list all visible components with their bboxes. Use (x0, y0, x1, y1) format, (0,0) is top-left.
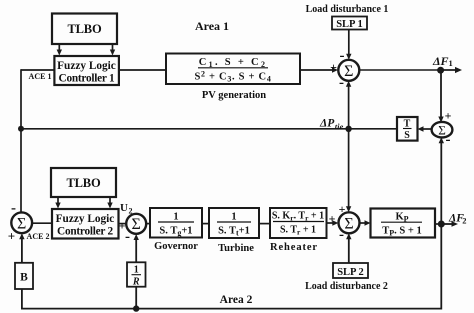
block Fuzzy Logic Controller 2 (52, 209, 119, 239)
svg-text:2: 2 (462, 216, 466, 226)
svg-text:PV generation: PV generation (202, 90, 266, 101)
svg-text:Σ: Σ (344, 63, 353, 80)
svg-text:S. Tt+1: S. Tt+1 (218, 226, 250, 238)
svg-text:Load disturbance 2: Load disturbance 2 (305, 281, 388, 292)
svg-text:Controller 2: Controller 2 (57, 226, 113, 238)
node dot delta F1 (437, 67, 444, 74)
svg-text:T: T (404, 119, 411, 130)
block SLP 2 (333, 263, 368, 278)
svg-text:+: + (445, 109, 452, 123)
svg-text:ACE 2: ACE 2 (27, 232, 50, 241)
wire B up into ACE2 with arrow (19, 233, 24, 262)
wire FLC2 to summing U2 (119, 223, 127, 225)
svg-text:Σ: Σ (344, 215, 353, 232)
svg-text:+: + (329, 211, 336, 225)
node dot bottom line at 1/R (133, 305, 139, 311)
block PV generation transfer function (166, 54, 300, 85)
svg-text:B: B (20, 272, 28, 284)
summing junction 2 (tie) (432, 122, 453, 138)
wire TLBO1 to FLC1 arrow left (57, 44, 62, 56)
block T/S (397, 117, 418, 141)
block Fuzzy Logic Controller 1 (54, 56, 119, 85)
block Kp power system (371, 209, 436, 238)
svg-text:Fuzzy Logic: Fuzzy Logic (57, 60, 116, 72)
node junction dot tie (348.6,128.8) (345, 126, 351, 132)
summing junction U2 (126, 214, 146, 234)
summing junction 3 (339, 212, 360, 233)
svg-text:ACE 1: ACE 1 (29, 72, 52, 81)
svg-text:tie: tie (335, 121, 344, 131)
wire 1/R up into U2 with arrow (134, 234, 139, 262)
wire TLBO2 to FLC2 arrow right (107, 197, 112, 209)
node dot delta F2 (438, 221, 445, 228)
svg-text:-: - (446, 132, 451, 148)
wire summing2 to T/S box with arrow (418, 126, 432, 131)
block SLP 1 (332, 17, 367, 31)
svg-text:Area 2: Area 2 (220, 294, 253, 306)
block TLBO 1 (52, 14, 117, 45)
wire summing3 to Kp with arrow (360, 220, 371, 225)
svg-text:U: U (120, 202, 128, 214)
svg-text:1: 1 (134, 265, 139, 276)
svg-text:S. Tr + 1: S. Tr + 1 (280, 225, 316, 237)
svg-text:ΔF: ΔF (432, 54, 449, 68)
svg-text:S2 + C3. S + C4: S2 + C3. S + C4 (194, 70, 271, 84)
wire left vertical x21 from ACE1 corner to ACE2 sum (20, 69, 22, 212)
wire summing2 bottom from dF2 node with arrow (439, 137, 444, 224)
wire ACE1 horizontal into FLC1 (21, 69, 54, 71)
wire FLC1 to PV box (119, 69, 166, 71)
summing junction 1 (338, 60, 359, 81)
svg-text:Load disturbance 1: Load disturbance 1 (306, 4, 389, 15)
svg-text:S. Tg+1: S. Tg+1 (159, 226, 192, 238)
block 1/R (127, 262, 146, 287)
block B (15, 263, 33, 289)
svg-text:1: 1 (231, 212, 236, 223)
svg-text:Turbine: Turbine (218, 243, 254, 254)
node label U2 (120, 202, 133, 216)
wire B down to bottom feedback line (22, 224, 441, 309)
svg-text:1: 1 (449, 58, 453, 68)
wire governor to turbine (202, 223, 209, 225)
svg-text:SLP 2: SLP 2 (337, 267, 364, 278)
svg-text:Area 1: Area 1 (195, 19, 229, 33)
svg-text:R: R (132, 277, 140, 288)
block Governor (150, 208, 202, 238)
svg-text:TLBO: TLBO (67, 176, 101, 190)
wire reheater to summing3 with arrow (327, 220, 339, 225)
summing junction ACE2 (11, 212, 32, 233)
svg-text:ΔP: ΔP (319, 118, 335, 130)
svg-text:S. Kr. Tr + 1: S. Kr. Tr + 1 (272, 211, 324, 223)
node label delta F1 (432, 54, 453, 68)
node label delta F2 (448, 213, 467, 226)
wire ACE2 to FLC2 (32, 222, 52, 224)
wire summing1 to dF1 node and arrow out (359, 67, 462, 73)
wire U2 to governor (146, 223, 150, 225)
svg-text:Controller 1: Controller 1 (59, 73, 115, 85)
svg-text:+: + (8, 229, 15, 244)
wire delta P tie horizontal (21, 128, 397, 130)
svg-text:Σ: Σ (17, 215, 26, 232)
svg-text:Governor: Governor (154, 241, 198, 252)
block Reheater (270, 208, 327, 238)
svg-text:-: - (11, 201, 16, 217)
svg-text:SLP 1: SLP 1 (336, 19, 363, 30)
node junction dot left (21,128.8) (18, 126, 24, 132)
wire vertical x348.6 tie node down to summing3 (346, 129, 351, 212)
node delta P tie label (319, 118, 344, 132)
svg-text:Σ: Σ (132, 216, 141, 233)
block TLBO 2 (51, 168, 116, 197)
svg-text:TLBO: TLBO (68, 22, 102, 36)
svg-text:+: + (330, 60, 337, 74)
svg-text:Reheater: Reheater (270, 242, 318, 253)
wire 1/R down to bottom line (135, 287, 137, 309)
wire dF1 node down to summing2 with arrow (438, 70, 443, 123)
wire SLP1 down to summing1 with arrow (346, 30, 351, 60)
svg-text:-: - (125, 229, 130, 245)
wire TLBO2 to FLC2 arrow left (55, 197, 60, 209)
wire TLBO1 to FLC1 arrow right (110, 44, 115, 56)
wire Kp to dF2 node and arrow out (435, 221, 458, 226)
svg-text:Fuzzy Logic: Fuzzy Logic (56, 213, 115, 225)
wire vertical x348.6 tie node up to summing1 (346, 81, 351, 129)
block Turbine (209, 208, 259, 238)
svg-text:1: 1 (173, 212, 178, 223)
wire PV box to summing1 with arrow (300, 67, 338, 72)
svg-text:TP. S + 1: TP. S + 1 (382, 226, 421, 238)
wire SLP2 up to summing3 with arrow (346, 233, 351, 263)
wire turbine to reheater (259, 223, 270, 225)
svg-text:S: S (404, 130, 410, 141)
